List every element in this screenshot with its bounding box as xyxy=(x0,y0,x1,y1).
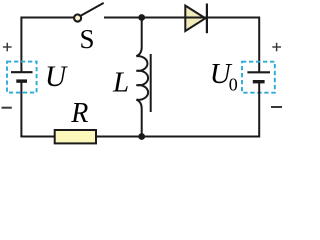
switch S (lever arm) xyxy=(81,3,103,15)
wire: top rail left segment (left corner to switch) xyxy=(21,17,73,19)
plus sign right xyxy=(272,43,281,52)
battery U long plate (+) xyxy=(11,71,33,73)
svg-text:L: L xyxy=(112,67,129,99)
battery U0 short plate (-) xyxy=(253,80,265,83)
wire: left rail upper (corner down to battery plate) xyxy=(20,17,22,73)
wire: bottom rail left segment (corner to resistor) xyxy=(20,136,55,138)
inductor L (coil) xyxy=(136,18,148,137)
diode D cathode bar xyxy=(206,4,208,34)
node junction top (rail to inductor) xyxy=(138,14,145,21)
diode D (body fill) xyxy=(185,6,205,31)
battery U short plate (-) xyxy=(16,79,27,82)
battery U0 long plate (+) xyxy=(247,71,270,73)
wire: right rail lower (battery U0 to bottom-right corner) xyxy=(258,82,260,138)
dashed box around source U xyxy=(7,62,37,93)
node junction bottom (inductor to bottom rail) xyxy=(138,133,145,140)
plus sign left xyxy=(3,43,12,52)
svg-text:U: U xyxy=(45,61,68,93)
wire: right rail upper (top-right corner down to battery U0) xyxy=(258,17,260,73)
resistor R (body) xyxy=(55,130,96,143)
inductor L core bar xyxy=(150,54,152,112)
minus sign right xyxy=(271,106,282,108)
dashed box around source U0 xyxy=(242,62,275,93)
svg-text:0: 0 xyxy=(229,74,238,94)
svg-text:R: R xyxy=(70,98,88,129)
svg-text:S: S xyxy=(80,24,95,54)
wire: top rail right segment (switch to top-right corner, through diode) xyxy=(104,17,259,19)
wire: bottom rail right segment (resistor to bottom-right corner) xyxy=(96,136,259,138)
switch S (pivot circle) xyxy=(74,14,81,21)
wire: left rail lower (battery to bottom-left corner) xyxy=(20,81,22,136)
minus sign left xyxy=(2,107,12,109)
